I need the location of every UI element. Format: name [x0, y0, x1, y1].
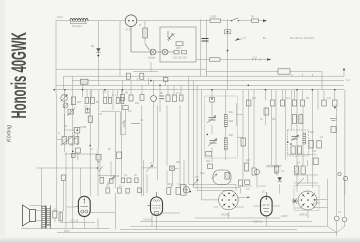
svg-text:0,2: 0,2: [119, 185, 123, 188]
svg-text:0,1: 0,1: [346, 78, 350, 82]
svg-text:≈220V: ≈220V: [281, 215, 289, 218]
svg-text:UY11: UY11: [125, 28, 132, 32]
svg-text:5000: 5000: [113, 174, 120, 178]
svg-text:220: 220: [176, 46, 181, 50]
svg-text:50: 50: [97, 160, 101, 164]
svg-text:4,7: 4,7: [242, 36, 246, 40]
svg-text:1M: 1M: [128, 110, 131, 113]
svg-text:30p: 30p: [206, 160, 211, 163]
svg-text:2M: 2M: [106, 185, 109, 188]
svg-text:0,1: 0,1: [112, 93, 116, 97]
svg-text:30p: 30p: [310, 130, 315, 134]
svg-text:0,1: 0,1: [150, 161, 154, 165]
svg-text:UCH11: UCH11: [221, 213, 230, 217]
svg-text:5000: 5000: [64, 230, 70, 233]
svg-text:30p: 30p: [200, 171, 205, 175]
svg-text:50: 50: [96, 100, 100, 104]
svg-text:Netz: Netz: [57, 15, 63, 19]
svg-text:2M: 2M: [252, 96, 257, 100]
svg-text:50: 50: [64, 124, 68, 128]
svg-text:0,1: 0,1: [176, 91, 180, 95]
svg-text:B+: B+: [263, 36, 267, 40]
svg-text:0,1: 0,1: [124, 174, 128, 177]
svg-text:0,1: 0,1: [140, 119, 144, 122]
svg-text:0,5: 0,5: [84, 106, 88, 109]
svg-text:1M: 1M: [70, 143, 75, 147]
svg-text:0,1: 0,1: [253, 56, 257, 60]
svg-text:30p: 30p: [229, 110, 234, 114]
svg-text:110 150 220: 110 150 220: [173, 57, 187, 60]
svg-text:2M: 2M: [272, 118, 275, 121]
svg-text:C: C: [58, 132, 60, 135]
svg-text:0,5: 0,5: [246, 188, 250, 191]
svg-text:2M: 2M: [77, 100, 82, 104]
svg-text:1M: 1M: [246, 158, 251, 162]
svg-text:100: 100: [312, 150, 317, 153]
svg-text:0,1: 0,1: [320, 136, 324, 139]
svg-text:0,1: 0,1: [281, 170, 285, 173]
svg-text:Honoris 40GWK: Honoris 40GWK: [7, 32, 31, 119]
svg-text:0,5M: 0,5M: [80, 125, 87, 129]
svg-text:UCL11: UCL11: [70, 219, 79, 223]
svg-text:1200: 1200: [210, 15, 217, 19]
svg-text:50: 50: [306, 96, 310, 100]
svg-text:0,1: 0,1: [90, 148, 94, 151]
svg-text:UBF11: UBF11: [254, 220, 263, 224]
svg-text:0,1: 0,1: [178, 183, 182, 186]
svg-text:C: C: [66, 93, 68, 97]
svg-text:1M: 1M: [135, 101, 140, 105]
svg-text:50: 50: [125, 91, 129, 95]
svg-text:Körting: Körting: [7, 125, 13, 142]
svg-text:0,1: 0,1: [338, 211, 342, 214]
svg-text:Drossel: Drossel: [72, 24, 82, 28]
svg-text:2M: 2M: [176, 160, 181, 164]
svg-text:Skala: Skala: [148, 56, 155, 60]
svg-text:30: 30: [251, 15, 255, 19]
svg-text:Bei Allstrom 110/220V: Bei Allstrom 110/220V: [290, 37, 315, 40]
svg-text:0,1: 0,1: [286, 96, 290, 100]
svg-text:0,3: 0,3: [327, 96, 331, 100]
svg-text:1M: 1M: [195, 176, 198, 179]
svg-text:30p: 30p: [229, 133, 234, 137]
svg-text:170: 170: [98, 113, 103, 116]
svg-text:50: 50: [91, 44, 95, 48]
svg-text:100: 100: [229, 119, 234, 123]
svg-text:UBF11: UBF11: [299, 213, 308, 217]
svg-text:30: 30: [160, 91, 164, 95]
svg-text:UCH11: UCH11: [143, 218, 152, 222]
svg-text:R: R: [139, 23, 141, 27]
